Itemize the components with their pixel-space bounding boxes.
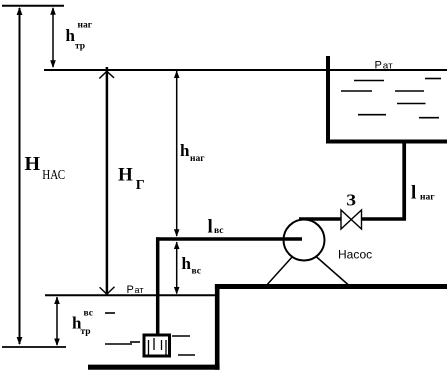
svg-text:l: l bbox=[208, 216, 213, 237]
svg-text:ат: ат bbox=[383, 60, 393, 70]
svg-text:l: l bbox=[411, 183, 416, 204]
svg-text:Г: Г bbox=[136, 178, 145, 193]
svg-text:вс: вс bbox=[192, 267, 201, 277]
svg-text:вс: вс bbox=[214, 226, 223, 236]
svg-text:Р: Р bbox=[375, 59, 382, 71]
svg-text:наг: наг bbox=[190, 154, 205, 164]
svg-text:h: h bbox=[180, 141, 190, 160]
svg-text:Н: Н bbox=[118, 165, 133, 186]
svg-text:тр: тр bbox=[75, 42, 85, 52]
svg-text:Насос: Насос bbox=[338, 248, 372, 262]
svg-text:Н: Н bbox=[25, 153, 41, 175]
svg-text:НАС: НАС bbox=[42, 167, 65, 182]
svg-text:вс: вс bbox=[84, 309, 93, 319]
svg-text:h: h bbox=[182, 254, 192, 273]
svg-text:Р: Р bbox=[127, 284, 134, 296]
svg-text:наг: наг bbox=[78, 21, 93, 31]
svg-text:З: З bbox=[346, 191, 356, 210]
svg-text:ат: ат bbox=[135, 285, 144, 295]
svg-text:наг: наг bbox=[420, 193, 435, 203]
svg-text:тр: тр bbox=[81, 327, 91, 337]
svg-text:h: h bbox=[66, 26, 76, 45]
